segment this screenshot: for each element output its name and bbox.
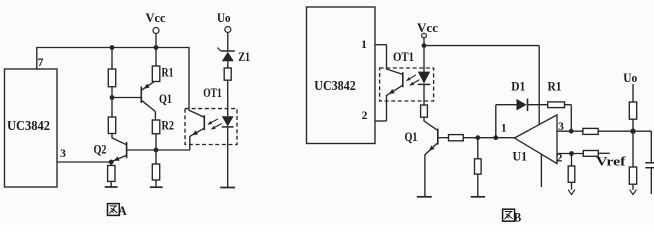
OT1b LED	[418, 46, 430, 106]
OT1 LED	[222, 104, 234, 127]
transistor Q2 (NPN)	[111, 138, 126, 162]
node Uo junction	[630, 129, 635, 134]
svg-text:A: A	[118, 204, 127, 218]
OT1 light arrows	[208, 119, 218, 125]
wire divider-b down	[477, 138, 479, 159]
wire Uo node down	[632, 131, 634, 167]
wire to ground B2	[477, 174, 479, 197]
ground B2	[471, 196, 485, 198]
wire to Q1b collector	[423, 117, 425, 121]
wire divider mid	[111, 87, 113, 118]
Vcc-b terminal	[422, 33, 427, 38]
svg-text:UC3842: UC3842	[314, 78, 356, 93]
ground B1	[417, 196, 432, 198]
wire Uo-b down	[632, 84, 634, 102]
ground B3 arrow	[568, 190, 575, 195]
wire Vcc to R1	[155, 48, 157, 67]
diode D1	[517, 99, 528, 112]
wire to arrow ground B3	[571, 182, 573, 190]
svg-text:2: 2	[557, 153, 563, 165]
wire Vcc-b rail	[424, 45, 539, 47]
node junction R2/OT1/Q2-base	[154, 148, 159, 153]
wire node150 down	[155, 150, 157, 164]
resistor Uo-lower	[629, 167, 636, 184]
wire zener to resistor	[227, 61, 229, 68]
IC U-left UC3842 box	[5, 69, 58, 187]
wire to ground A1	[110, 181, 112, 187]
ground A3	[220, 187, 235, 189]
svg-text:UC3842: UC3842	[7, 118, 50, 133]
svg-text:Vcc: Vcc	[417, 20, 438, 35]
svg-text:Z1: Z1	[238, 50, 250, 64]
node divider tap junction	[110, 95, 115, 100]
svg-text:1: 1	[501, 123, 507, 135]
wire divider bottom to Q2 collector	[111, 134, 113, 139]
wire pin3 to Uo node	[598, 130, 651, 132]
resistor divider-b	[475, 159, 482, 174]
svg-text:OT1: OT1	[393, 50, 414, 64]
resistor base-series-b	[449, 135, 464, 141]
resistor pin3-series	[583, 128, 598, 134]
wire divider top	[111, 48, 113, 70]
svg-text:Q2: Q2	[94, 143, 107, 157]
resistor pin2-series	[583, 151, 598, 157]
svg-text:Q1: Q1	[159, 92, 172, 106]
wire Uo stub	[227, 33, 229, 52]
wire opamp V- supply	[540, 154, 542, 187]
svg-text:7: 7	[38, 57, 44, 69]
svg-text:3: 3	[558, 121, 564, 133]
node junction top-rail/Vcc	[154, 45, 159, 50]
capacitor C1	[645, 163, 654, 194]
resistor R1b	[548, 102, 565, 108]
svg-text:1: 1	[361, 39, 367, 51]
wire resistor to LED	[227, 80, 229, 104]
node Vcc-b junction	[422, 43, 427, 48]
resistor Q2-emitter	[110, 162, 112, 166]
resistor divider-upper	[108, 69, 115, 87]
svg-text:3: 3	[60, 148, 66, 160]
svg-text:Q1: Q1	[405, 130, 418, 144]
resistor pin2-lower	[568, 166, 575, 182]
transistor Q1b (NPN)	[424, 121, 438, 197]
pin 3 wire	[557, 130, 583, 132]
svg-text:U1: U1	[513, 150, 528, 164]
wire opamp V+ supply	[538, 46, 540, 125]
wire Q1 base	[112, 97, 141, 99]
svg-text:Uo: Uo	[217, 10, 231, 25]
zener Z1	[217, 48, 234, 62]
node junction top-rail/divider	[110, 45, 115, 50]
node pin2 junction	[569, 151, 574, 156]
IC U-right UC3842 box	[307, 7, 376, 144]
wire pin7 riser	[36, 48, 38, 70]
wire pin2	[375, 120, 387, 122]
transistor Q1 (PNP)	[141, 81, 155, 120]
ground A1	[105, 186, 118, 188]
label fig A	[108, 204, 120, 216]
wire D1 to R1b	[528, 104, 548, 106]
wire to arrow ground B4	[632, 184, 634, 190]
OT1 phototransistor	[189, 110, 204, 150]
svg-text:R1: R1	[162, 66, 174, 80]
wire base row	[463, 137, 515, 139]
wire top rail	[36, 47, 189, 49]
svg-text:2: 2	[362, 110, 368, 122]
pin 2 wire	[557, 153, 584, 155]
resistor Uo-upper	[629, 102, 636, 119]
node divider-b junction	[475, 135, 480, 140]
node 1 junction	[493, 135, 498, 140]
svg-text:Vref: Vref	[596, 155, 627, 169]
OT1b phototransistor	[387, 69, 403, 95]
svg-text:R1: R1	[548, 80, 562, 94]
wire Q1b base	[438, 137, 449, 139]
node pin3 junction	[569, 129, 574, 134]
wire to ground A2	[155, 180, 157, 187]
wire base row y150	[127, 149, 191, 151]
wire R2 bottom	[155, 134, 157, 150]
Vcc terminal	[153, 28, 159, 34]
resistor below-R2	[152, 164, 159, 180]
resistor divider-lower	[108, 117, 115, 134]
optocoupler OT1 dashed box	[185, 109, 237, 145]
svg-text:OT1: OT1	[203, 86, 222, 100]
node junction Q2 emitter/pin3	[109, 160, 114, 165]
resistor R2	[152, 120, 160, 134]
svg-text:R2: R2	[162, 119, 175, 133]
resistor zener-series	[224, 68, 231, 80]
ground A2	[150, 186, 163, 188]
wire node1 up to D1	[495, 105, 497, 138]
wire Vcc stub	[155, 34, 157, 48]
wire R1b to pin3 node	[565, 104, 572, 106]
optocoupler OT1b dashed box	[380, 68, 434, 101]
label fig B	[503, 209, 515, 221]
wire pin3	[57, 161, 111, 163]
svg-text:B: B	[514, 211, 522, 225]
wire to Uo node	[632, 119, 634, 131]
resistor R1	[152, 66, 160, 82]
wire LED cathode to ground	[227, 127, 229, 188]
wire pin2 node down	[571, 154, 573, 167]
wire to capacitor	[650, 131, 652, 162]
wire pin2 to Vref	[598, 152, 610, 154]
resistor LED-series-b	[421, 105, 428, 117]
svg-text:Vcc: Vcc	[146, 10, 166, 25]
svg-text:Uo: Uo	[623, 70, 637, 85]
ground B4 arrow	[630, 190, 637, 195]
wire OT1 collector drop	[188, 48, 190, 111]
OT1b light arrows	[406, 75, 416, 81]
wire pin1	[375, 44, 387, 46]
op-amp U1	[515, 115, 558, 164]
svg-text:D1: D1	[511, 80, 525, 94]
Uo terminal	[225, 27, 231, 33]
